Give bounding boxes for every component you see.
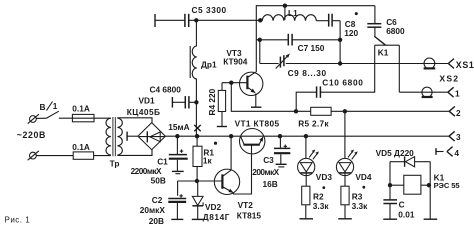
svg-text:3: 3 [456,132,461,142]
node C7 right [338,38,342,42]
svg-text:20В: 20В [149,216,164,226]
bridge rectifier VD1 [138,123,166,150]
node C4 junction [194,100,198,104]
capacitor C1 [169,136,188,174]
label C8 star [345,12,358,29]
svg-text:КЦ405Б: КЦ405Б [127,107,161,117]
node C5/L1 junction [258,18,262,22]
svg-text:3.3к: 3.3к [352,201,369,211]
LED VD3 [298,136,319,186]
svg-text:R2: R2 [313,192,324,202]
svg-text:VT1 КТ805: VT1 КТ805 [235,118,280,128]
transformer Tr secondary winding [117,118,122,155]
svg-text:0.1A: 0.1A [72,142,90,152]
resistor R4 [217,83,227,127]
wire VT2 collector up [230,136,232,170]
svg-text:C5 3300: C5 3300 [192,5,227,15]
svg-text:C7 150: C7 150 [298,43,325,53]
resistor R1 [193,136,202,181]
svg-text:15мА: 15мА [168,122,189,132]
svg-text:0.01: 0.01 [398,210,415,220]
wire C4 node to rail [195,102,197,136]
node VT2 collector [229,134,233,138]
svg-text:1: 1 [53,101,58,111]
node rail tap [283,3,287,7]
node VD3 [304,134,308,138]
zener VD2 [192,181,204,219]
transistor VT3 [240,72,263,107]
C7 row wire [256,39,288,41]
svg-text:4: 4 [454,148,459,158]
node C5/Dr1 junction [194,18,198,22]
node C10 drop [294,109,298,113]
capacitor C8 [329,14,340,64]
capacitor C6 [367,6,381,37]
connector pin 1 chevron [448,87,454,97]
node C1 [175,134,179,138]
relay contact K1.1 [374,36,399,92]
XS1 line y63.5 [260,63,449,65]
variable capacitor C9 [276,54,290,69]
main rail wire y136 [165,135,449,137]
inductor L1 [262,15,316,21]
connector XS1 chevron [448,59,454,69]
capacitor C10 [296,45,375,111]
svg-text:~220В: ~220В [17,130,46,140]
node C7 left [258,38,262,42]
fuse FU1 [72,114,94,121]
connector pin 2 chevron [449,106,455,116]
VT3 base wire [222,82,247,84]
svg-text:R3: R3 [352,192,363,202]
svg-text:0.1A: 0.1A [72,103,90,113]
wire VT2 emitter to VT1 base [233,146,251,195]
svg-text:КТ904: КТ904 [223,57,248,67]
svg-text:VT2: VT2 [238,200,254,210]
svg-text:Д814Г: Д814Г [203,212,230,222]
svg-text:C: C [399,199,405,209]
resistor R2 [300,186,314,219]
svg-text:C1: C1 [157,157,168,167]
capacitor C5 [185,14,189,27]
node C3 [278,134,282,138]
node R1/VD2 [195,179,199,183]
svg-text:6800: 6800 [386,26,405,36]
asterisk R2 [322,186,325,189]
connector pin 4 stub [436,148,444,155]
svg-text:2: 2 [456,108,461,118]
fuse FU2 [73,152,93,159]
svg-text:1к: 1к [203,155,213,165]
transistor VT2 [214,169,239,194]
connector pin 3 chevron [449,131,455,141]
node VT3 base [229,81,233,85]
wire L1 to C8 [316,20,328,22]
svg-text:C2: C2 [152,195,163,205]
asterisk R1 [214,142,217,145]
svg-text:R5 2.7к: R5 2.7к [298,118,329,128]
bridge left stub [127,132,138,141]
svg-text:L1: L1 [288,8,298,18]
svg-text:VD5 Д220: VD5 Д220 [376,148,415,158]
diode VD5 [390,156,430,166]
svg-text:200мкХ: 200мкХ [252,167,279,177]
relay loop right [424,162,438,220]
XS2 row wire [399,91,448,93]
relay loop left [389,162,391,200]
LED VD4 [336,111,357,186]
relay coil K1 [390,175,430,194]
transformer Tr primary winding [106,118,111,155]
antenna stub terminal [155,14,185,27]
node R5/VD4 [343,109,347,113]
wire VT3 base down to R5 row [231,83,310,112]
wire Dr1 to C4 node [195,79,197,102]
wire secondary top to bridge [117,118,152,123]
lamp HL2 [422,87,433,97]
capacitor C4 [172,96,196,108]
svg-text:РЭС 55: РЭС 55 [434,181,461,190]
svg-text:Рис. 1: Рис. 1 [5,216,31,225]
base wire row y181 [178,180,222,182]
resistor R3 [338,186,352,219]
svg-text:Тр: Тр [110,159,120,169]
switch V1 blade [46,111,59,118]
wire fuse2 to transformer [94,155,111,157]
node R1 [195,134,199,138]
capacitor C 0.01 [383,200,397,219]
svg-text:VD3: VD3 [316,172,333,182]
svg-text:C3: C3 [263,155,274,165]
AC input terminal bottom [28,151,73,160]
svg-text:R4 220: R4 220 [207,88,217,115]
asterisk R3 [362,186,365,189]
lamp XS1 [424,58,436,69]
svg-text:C9 8...30: C9 8...30 [288,68,327,78]
wire secondary bottom to bridge [117,149,152,155]
svg-text:В: В [40,102,46,112]
svg-text:Др1: Др1 [201,60,217,70]
inductor Dr1 [190,46,197,79]
capacitor C3 [274,136,290,167]
svg-text:КТ815: КТ815 [237,211,262,221]
tank top rail [256,6,375,72]
L1 tap wire [284,6,286,20]
node relay left [388,183,392,187]
break mark X 15mA [194,125,200,131]
svg-text:50В: 50В [151,175,166,185]
capacitor C2 [168,181,186,219]
transformer core [113,117,115,156]
AC input terminal top [28,114,47,123]
svg-text:20мкХ: 20мкХ [140,205,166,215]
connector pin 4 chevron [447,147,453,157]
svg-text:120: 120 [344,28,358,38]
C9 branch vertical [259,40,261,64]
svg-text:XS2: XS2 [439,73,459,83]
svg-text:K1: K1 [378,47,389,57]
svg-text:VD2: VD2 [205,202,222,212]
svg-text:C10 6800: C10 6800 [322,78,363,88]
node relay right [427,183,431,187]
label V1 [40,101,58,112]
resistor R5 [311,107,331,115]
svg-text:VD4: VD4 [355,172,372,182]
transistor VT1 [240,129,265,154]
svg-text:XS1: XS1 [456,60,474,70]
wire R5 to pin2 [331,110,449,112]
capacitor C7 [288,34,340,46]
svg-text:16В: 16В [263,179,278,189]
wire C5 to tank [189,19,262,21]
wire switch to fuse [59,117,111,119]
svg-text:VD1: VD1 [139,95,156,105]
wire down to Dr1 [195,20,197,46]
svg-text:C4 6800: C4 6800 [150,85,182,95]
svg-text:3.3к: 3.3к [313,201,330,211]
node tank right on XS1 line [338,61,342,65]
svg-text:1: 1 [455,88,460,98]
